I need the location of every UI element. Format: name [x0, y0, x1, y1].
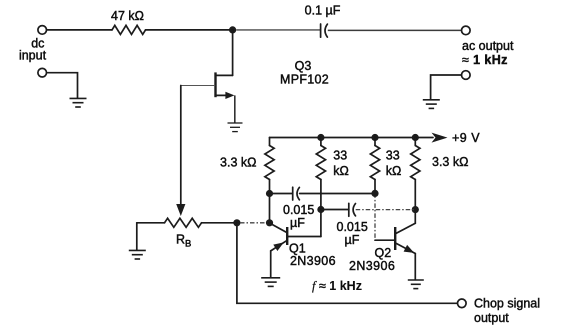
- node: chop tap dot: [233, 219, 240, 226]
- wire: ac - to ground: [431, 75, 462, 99]
- terminal: dc input +: [38, 26, 47, 35]
- resistor R 3.3k left: [269, 138, 271, 146]
- svg-text:µF: µF: [290, 216, 305, 230]
- node: drain junction dot: [229, 26, 236, 33]
- svg-text:ac output: ac output: [462, 39, 514, 53]
- wire: R 47k to junction: [146, 29, 233, 31]
- terminal: ac output -: [462, 71, 471, 80]
- svg-text:3.3 kΩ: 3.3 kΩ: [220, 156, 256, 170]
- wire: RB left to ground: [136, 223, 138, 250]
- transistor Q3 JFET drain wire: [232, 30, 234, 76]
- transistor Q3 gate wire: [181, 85, 215, 87]
- transistor Q3 channel bar: [214, 72, 216, 97]
- terminal: ac output +: [462, 26, 471, 35]
- svg-text:0.1 µF: 0.1 µF: [305, 4, 341, 18]
- transistor Q3 source wire with arrow: [216, 94, 231, 96]
- svg-text:Chop signal: Chop signal: [474, 297, 540, 311]
- svg-text:Q3: Q3: [295, 59, 312, 73]
- resistor R 33k second: [374, 138, 376, 146]
- svg-text:kΩ: kΩ: [333, 164, 349, 178]
- transistor Q1: [270, 223, 288, 233]
- ground: Q1 emitter: [261, 277, 280, 279]
- wire: junction to capacitor 0.1uF: [236, 29, 320, 31]
- ground: Q3 source: [228, 122, 243, 124]
- svg-text:kΩ: kΩ: [386, 164, 402, 178]
- svg-text:+9 V: +9 V: [452, 131, 480, 145]
- svg-text:33: 33: [386, 148, 400, 162]
- ground: RB: [129, 249, 146, 251]
- wire: gate down to RB wiper arrow: [180, 86, 182, 205]
- +9V rail: [270, 137, 434, 139]
- resistor 47 kOhm: [112, 25, 146, 34]
- transistor Q2: [396, 223, 415, 233]
- potentiometer RB: [137, 222, 165, 224]
- wire: Q2 base vertical (dash-dot): [374, 193, 376, 240]
- ground: dc input: [70, 97, 87, 99]
- ground: ac output: [423, 99, 440, 101]
- resistor R 3.3k right: [414, 138, 416, 146]
- svg-text:≈ 1 kHz: ≈ 1 kHz: [462, 53, 508, 67]
- terminal: chop signal output: [458, 299, 467, 308]
- wire: capacitor to ac output: [328, 29, 462, 31]
- svg-text:2N3906: 2N3906: [349, 259, 395, 273]
- capacitor C 0.015uF first: [270, 193, 293, 195]
- svg-text:µF: µF: [345, 233, 360, 247]
- resistor R 33k first: [320, 138, 322, 146]
- svg-text:47 kΩ: 47 kΩ: [111, 9, 144, 23]
- wire: RB node to Q1 collector node: [240, 222, 266, 224]
- svg-text:f ≈ 1 kHz: f ≈ 1 kHz: [312, 279, 362, 293]
- wire: dc input to R 47k: [47, 29, 112, 31]
- svg-text:2N3906: 2N3906: [290, 254, 336, 268]
- wire: dc - to ground: [47, 73, 78, 98]
- svg-text:output: output: [474, 311, 509, 325]
- node dots rail: [317, 134, 324, 141]
- wire: chop signal vertical + bottom: [237, 223, 458, 303]
- ground: Q2 emitter: [408, 279, 424, 281]
- svg-text:MPF102: MPF102: [280, 72, 329, 86]
- svg-text:3.3 kΩ: 3.3 kΩ: [432, 155, 468, 169]
- svg-text:0.015: 0.015: [337, 220, 368, 234]
- svg-text:input: input: [19, 49, 47, 63]
- capacitor C 0.015uF second: [321, 209, 349, 211]
- node dots caps: [266, 190, 273, 197]
- svg-text:33: 33: [333, 148, 347, 162]
- capacitor C 0.1 uF: [320, 24, 322, 37]
- terminal: dc input -: [38, 68, 47, 77]
- svg-text:0.015: 0.015: [283, 203, 314, 217]
